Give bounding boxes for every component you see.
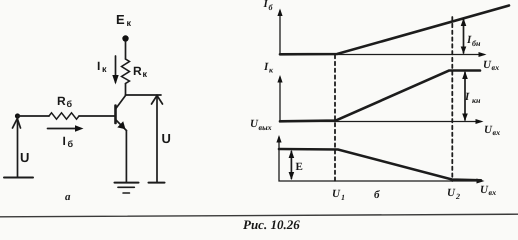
label a (circuit) bbox=[65, 191, 71, 203]
annotation arrow Ibn bbox=[461, 18, 467, 54]
label b (graphs) bbox=[374, 189, 380, 201]
svg-text:бн: бн bbox=[472, 39, 481, 48]
wire Rk to collector node bbox=[125, 84, 127, 96]
svg-text:б: б bbox=[68, 139, 74, 149]
svg-text:I: I bbox=[464, 91, 470, 103]
svg-text:к: к bbox=[127, 18, 132, 28]
resistor Rb bbox=[49, 113, 79, 119]
svg-text:вх: вх bbox=[492, 63, 500, 72]
svg-text:вх: вх bbox=[489, 188, 497, 197]
svg-text:а: а bbox=[65, 191, 71, 203]
label U_vx top axis bbox=[483, 59, 499, 72]
svg-text:1: 1 bbox=[341, 193, 345, 202]
current arrow Ib bbox=[48, 125, 84, 131]
label U_vx bottom axis bbox=[480, 184, 496, 197]
label Rk bbox=[133, 64, 148, 79]
label U input bbox=[20, 150, 29, 165]
svg-text:E: E bbox=[116, 12, 125, 27]
svg-text:U: U bbox=[162, 131, 171, 146]
label Rb bbox=[57, 94, 73, 109]
svg-text:б: б bbox=[67, 99, 73, 109]
axis Uvyx graph bbox=[276, 135, 484, 184]
svg-text:I: I bbox=[97, 59, 100, 73]
input node bbox=[15, 113, 20, 118]
curve Uvyx bbox=[279, 149, 481, 180]
svg-text:вых: вых bbox=[259, 123, 272, 132]
label U output bbox=[162, 131, 171, 146]
label Uvyx axis bbox=[250, 118, 272, 132]
wire collector node to output bbox=[126, 94, 162, 96]
resistor Rk bbox=[122, 59, 130, 84]
dashed line U2 bbox=[451, 17, 453, 181]
transistor bbox=[116, 96, 127, 131]
svg-text:U: U bbox=[447, 187, 456, 199]
label Ib axis bbox=[263, 0, 274, 12]
svg-text:кн: кн bbox=[472, 96, 481, 105]
wire supply to Rk bbox=[125, 42, 127, 60]
label Ib bbox=[63, 134, 74, 149]
svg-text:2: 2 bbox=[455, 192, 460, 201]
label U_vx middle axis bbox=[484, 124, 500, 137]
svg-text:к: к bbox=[102, 64, 107, 74]
dashed line U1 bbox=[334, 55, 336, 181]
label E bbox=[296, 161, 303, 173]
annotation arrow Ikn bbox=[462, 71, 468, 121]
label Ik bbox=[97, 59, 107, 74]
curve Ik bbox=[280, 71, 480, 122]
svg-text:I: I bbox=[63, 134, 66, 148]
label Ik axis bbox=[263, 61, 274, 75]
svg-text:U: U bbox=[332, 188, 341, 200]
curve Ib bbox=[280, 6, 509, 55]
wire Rb to base bbox=[79, 115, 116, 117]
caption rule bbox=[0, 214, 518, 217]
svg-text:R: R bbox=[133, 64, 142, 78]
ground bbox=[115, 183, 139, 193]
current arrow Ik bbox=[112, 56, 118, 85]
label Ikn bbox=[464, 91, 481, 105]
svg-text:вх: вх bbox=[493, 128, 501, 137]
label Ek bbox=[116, 12, 132, 28]
svg-text:б: б bbox=[374, 189, 380, 201]
axis Ib graph bbox=[277, 9, 486, 58]
caption Ris 10.26 bbox=[243, 217, 300, 232]
supply terminal Ek bbox=[122, 35, 128, 41]
input voltage arrow U bbox=[13, 118, 21, 177]
wire emitter to ground bbox=[125, 131, 127, 183]
input terminal bar bbox=[4, 177, 33, 179]
label U2 bbox=[447, 187, 460, 201]
label U1 bbox=[332, 188, 345, 202]
output voltage line U bbox=[149, 96, 165, 183]
annotation arrow E bbox=[289, 150, 295, 180]
svg-text:U: U bbox=[20, 150, 29, 165]
svg-text:E: E bbox=[296, 161, 303, 173]
svg-text:R: R bbox=[57, 94, 66, 108]
axis Ik graph bbox=[277, 75, 483, 124]
wire input node to Rb bbox=[18, 115, 50, 117]
svg-text:к: к bbox=[143, 69, 148, 79]
label Ibn bbox=[466, 34, 481, 48]
svg-text:Рис. 10.26: Рис. 10.26 bbox=[243, 217, 300, 232]
